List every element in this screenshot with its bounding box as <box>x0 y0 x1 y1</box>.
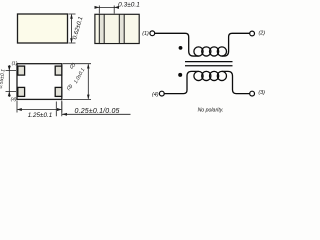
terminal 1 <box>150 31 155 36</box>
svg-text:1.25±0.1: 1.25±0.1 <box>28 112 52 119</box>
svg-text:0.3±0.1: 0.3±0.1 <box>118 1 140 8</box>
side view body <box>95 14 139 43</box>
dimension 1.25±0.1 extensions <box>17 101 62 113</box>
dimension 0.3±0.1 line <box>95 6 119 8</box>
svg-text:(4): (4) <box>11 97 17 103</box>
dimension 1.25±0.1 line <box>18 109 62 111</box>
winding 1-2 wire right <box>222 33 250 56</box>
winding 1-2 turns <box>194 47 227 56</box>
winding 4-3 wire left <box>164 71 198 93</box>
pad 1 (top-left) <box>18 66 25 75</box>
dimension 0.3±0.1 arrows <box>95 6 120 9</box>
pad 3 (bottom-right) <box>55 87 62 96</box>
top view body <box>18 14 68 43</box>
svg-text:(1): (1) <box>142 31 149 37</box>
svg-text:(4): (4) <box>152 92 159 98</box>
dimension 0.62±0.1 arrows <box>70 14 73 43</box>
pad 4 (bottom-left) <box>18 87 25 96</box>
dimension 0.55±0.1 line <box>8 65 10 97</box>
dimension 0.62±0.1 line <box>71 15 73 43</box>
svg-text:No polarity.: No polarity. <box>198 107 224 113</box>
dimension 0.25±0.1/0.05 leader line <box>62 113 131 115</box>
terminal 2 <box>250 31 255 36</box>
dimension 0.55±0.1 extensions <box>6 71 17 92</box>
dimension 0.62±0.1 extension lines <box>69 14 76 43</box>
svg-text:(1): (1) <box>12 61 18 67</box>
svg-text:(3): (3) <box>258 90 265 96</box>
svg-text:(2): (2) <box>259 31 265 37</box>
dimension 1.0±0.1 extensions <box>63 64 91 100</box>
side view electrode band left <box>99 15 104 43</box>
winding 4-3 wire right <box>222 71 250 93</box>
winding 4-3 turns <box>194 71 227 80</box>
side view electrode band right <box>119 15 124 43</box>
core line 2 <box>185 65 233 67</box>
bottom view body <box>17 64 62 100</box>
polarity dot bottom <box>178 73 182 77</box>
pad 2 (top-right) <box>55 66 62 75</box>
terminal 3 <box>250 91 255 96</box>
core line 1 <box>185 61 233 63</box>
side view center section <box>104 15 119 43</box>
polarity dot top <box>179 46 183 50</box>
winding 1-2 wire left <box>155 33 199 56</box>
dimension 1.0±0.1 line <box>87 64 89 99</box>
dimension 0.3±0.1 extensions <box>99 6 114 14</box>
dimension 0.25±0.1/0.05 arrow <box>62 113 67 116</box>
svg-text:0.25±0.1/0.05: 0.25±0.1/0.05 <box>75 108 120 115</box>
dimension 0.25±0.1/0.05 extensions <box>56 102 62 117</box>
terminal 4 <box>159 91 164 96</box>
